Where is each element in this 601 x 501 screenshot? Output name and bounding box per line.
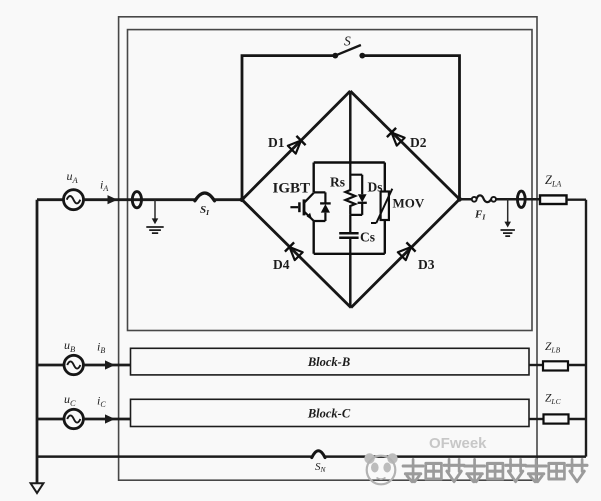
ground arrow at bottom of bus — [31, 483, 44, 493]
AC source uA — [64, 190, 84, 210]
ground tap stem on phase A — [154, 200, 156, 219]
IGBT Q1 — [290, 192, 325, 221]
wire Cs to box bottom — [349, 238, 351, 254]
svg-text:S: S — [344, 34, 351, 49]
watermark chinese characters — [403, 460, 587, 482]
bypass wire: switch to right vertex — [362, 56, 459, 200]
wire: bus to source uB — [37, 364, 64, 367]
current arrow iC — [105, 414, 115, 423]
current arrow iA — [108, 195, 118, 204]
ground bars (phase A tap) — [146, 227, 163, 233]
svg-text:Rs: Rs — [330, 175, 345, 190]
diamond edge lower-right — [351, 199, 460, 307]
svg-text:D4: D4 — [273, 257, 290, 272]
wire ZLC to right bus — [569, 418, 587, 420]
svg-text:MOV: MOV — [393, 196, 425, 211]
diamond edge upper-right — [350, 91, 459, 199]
svg-text:IGBT: IGBT — [273, 181, 311, 197]
svg-text:D2: D2 — [410, 135, 427, 150]
load ZLA — [540, 195, 567, 204]
phase A wire: Si to left bridge vertex — [215, 198, 243, 201]
diode D1 — [287, 136, 305, 154]
svg-text:D1: D1 — [268, 135, 285, 150]
Block-B box — [131, 348, 530, 375]
diode D4 — [285, 242, 303, 260]
phase C wire — [83, 418, 130, 421]
wire ZLA to right drop — [567, 198, 587, 200]
diamond edge lower-left — [242, 200, 351, 308]
wire Rs/Ds node to Cs — [349, 215, 351, 233]
switch SN arc — [312, 451, 325, 458]
diode D2 — [387, 128, 405, 146]
switch Si arc — [195, 193, 215, 201]
watermark logo panda — [364, 453, 397, 484]
bridge center wire top: top vertex to snubber box — [349, 91, 352, 163]
diode Ds — [358, 194, 367, 202]
inner bridge-section box — [128, 30, 533, 331]
snubber box right edge segments (MOV branch) — [384, 163, 386, 254]
neutral wire left of SN — [37, 455, 312, 458]
load ZLC — [544, 414, 569, 423]
wire Block-C to ZLC — [529, 418, 544, 420]
diode D3 — [397, 242, 415, 260]
outer enclosure box — [119, 17, 537, 480]
svg-text:Cs: Cs — [360, 230, 375, 245]
neutral wire right of SN — [325, 455, 586, 458]
svg-text:Block-C: Block-C — [307, 407, 351, 421]
current arrow iB — [105, 360, 115, 369]
CT ellipse (right) — [517, 191, 525, 207]
left neutral bus wire — [36, 200, 39, 484]
bridge center wire bottom: snubber box to bottom vertex — [349, 254, 352, 308]
snubber box bottom edge — [314, 253, 385, 255]
wire: bus to source uA — [37, 198, 64, 201]
wire ZLB to right bus — [569, 364, 587, 366]
switch S contacts — [332, 53, 338, 59]
wire: bus to source uC — [37, 418, 64, 421]
snubber box left edge segments (IGBT branch) — [313, 163, 315, 254]
phase A wire: right vertex to ZLA — [460, 198, 541, 201]
node: right vertex — [457, 197, 462, 202]
AC source uB — [64, 355, 83, 374]
IGBT antiparallel diode — [324, 192, 326, 221]
load ZLB — [543, 361, 568, 370]
resistor Rs — [346, 163, 356, 215]
svg-text:D3: D3 — [418, 257, 435, 272]
ground tap stem (right) — [507, 199, 509, 222]
capacitor Cs — [339, 233, 358, 238]
bypass wire: left vertex up and over to switch S — [242, 56, 335, 200]
snubber middle branch upper loop wires — [350, 175, 362, 215]
Block-C box — [131, 399, 530, 426]
ground bars (right tap) — [501, 230, 515, 236]
phase A wire: source to Si — [84, 198, 195, 201]
varistor MOV — [381, 192, 389, 221]
svg-text:OFweek: OFweek — [429, 435, 487, 452]
node: left vertex — [240, 197, 245, 202]
fuse FI contact circles — [472, 197, 477, 202]
AC source uC — [64, 409, 83, 428]
wire Block-B to ZLB — [529, 364, 544, 366]
svg-text:Block-B: Block-B — [307, 355, 350, 369]
right vertical load bus — [585, 200, 587, 457]
switch S blade — [335, 45, 361, 56]
CT ellipse on phase A — [132, 192, 141, 208]
fuse FI squiggle — [477, 195, 492, 202]
phase B wire — [83, 364, 130, 367]
snubber box top edge — [314, 161, 385, 163]
diamond edge upper-left — [242, 91, 350, 200]
